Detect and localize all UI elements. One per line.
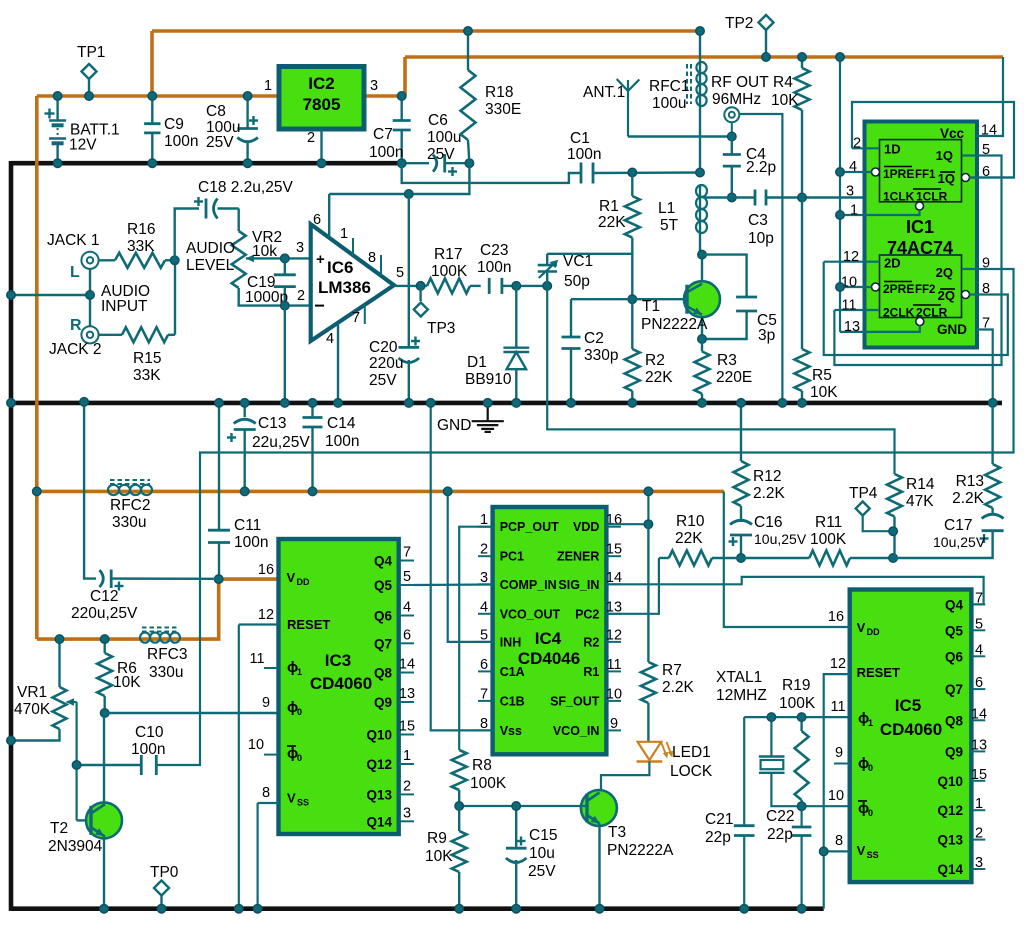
svg-text:9: 9 [835,745,843,761]
label C2 330p [584,330,618,364]
svg-text:15: 15 [606,542,622,558]
svg-text:RFC2: RFC2 [110,497,150,514]
label IC2 pin 2 [307,130,315,146]
label T2 2N3904 [48,820,103,855]
node battery negative [53,159,62,168]
transistor T1 PN2222A [684,255,720,339]
svg-text:Q5: Q5 [374,578,393,593]
node R3 ground [698,399,707,408]
label R7 2.2K [662,662,695,696]
svg-text:GND: GND [437,417,471,434]
svg-text:2: 2 [403,778,411,794]
label IC5 RESET [857,665,900,680]
node R16 R15 join [170,256,179,265]
svg-text:C7: C7 [373,126,393,143]
label VR2 10k [252,229,282,260]
svg-text:RFC3: RFC3 [147,646,187,663]
pins IC5 outputs Q4-Q14 [937,590,987,877]
resistor R12 [734,403,749,522]
diode D1 BB910 (varactor) [503,286,529,403]
label C7 100n [369,126,403,161]
wire IC6 output [394,285,427,287]
wire L1 top to C4 bottom [705,196,732,198]
wire C23 to VC1 node [516,285,547,287]
label IC5 Vss [857,843,879,860]
label C14 100n [325,415,359,450]
resistor R9 [452,806,467,909]
svg-text:C14: C14 [327,415,356,432]
wire IC1 pin12 (2D) [824,261,880,263]
resistor R17 [427,278,481,293]
label IC1 pin 2 [853,136,861,152]
svg-text:RFC1: RFC1 [649,78,689,95]
node RFC1 top on +12V [696,27,705,36]
label C18 2.2u,25V [198,179,293,196]
svg-text:8: 8 [262,785,270,801]
svg-text:330p: 330p [584,347,618,364]
node C19 ground [281,399,290,408]
svg-text:3: 3 [846,184,854,200]
node IC1 pin7 ground [988,399,997,408]
label IC6 pin 5 [396,265,404,281]
node R6 bottom / phi0 row [100,709,109,718]
label C17 10u,25V [933,517,986,550]
svg-text:5T: 5T [660,217,679,234]
wire IC4 PC2 to R10 [606,558,659,614]
ground symbol GND [472,403,504,432]
flip-flop FF1 block [872,140,970,210]
label JACK 2 [49,341,102,358]
wire IC4 VDD to +12V rail [606,491,648,524]
svg-text:2Q: 2Q [936,265,953,280]
label IC2 pin 1 [264,78,272,94]
wire IC1 pin2-1Q loop [852,102,1014,178]
node C19 bottom [281,301,290,310]
node IC6 pin4 ground [334,399,343,408]
svg-text:IC2: IC2 [308,74,334,93]
label IC3 RESET [287,617,330,632]
wire IC3 Q5 to IC4 COMP_IN [414,583,494,586]
label C22 22p [766,808,794,843]
svg-text:PCP_OUT: PCP_OUT [500,520,559,534]
label XTAL1 12MHZ [716,669,767,704]
node C13 top [240,399,249,408]
wire T2 base [77,819,90,821]
wire to C18 [175,209,199,261]
label C21 22p [705,811,733,846]
test point TP1 [82,64,97,96]
svg-text:C1B: C1B [500,694,525,708]
label C5 3p [757,312,777,344]
label R3 220E [716,352,752,386]
node C8 top [243,92,252,101]
wire ground left border (black) [9,161,14,911]
svg-text:R4: R4 [773,74,793,91]
svg-text:47K: 47K [906,493,934,510]
svg-text:VDD: VDD [573,520,599,534]
node TP1 on rail [85,92,94,101]
svg-text:10K: 10K [425,848,453,865]
capacitor C14 [303,403,323,492]
svg-text:COMP_IN: COMP_IN [500,578,557,592]
svg-text:C1: C1 [570,130,590,147]
transistor T3 PN2222A [581,790,617,826]
wire C3 to 1CLK [766,196,880,198]
resistor R14 [887,474,902,558]
svg-text:Q6: Q6 [374,609,393,624]
capacitor C11 [208,403,230,579]
svg-text:LEVEL: LEVEL [186,257,235,274]
node C2 ground [567,399,576,408]
node RF shield ground [778,399,787,408]
node C14 bottom on rail [308,487,317,496]
capacitor C6 (electrolytic) [402,154,470,176]
capacitor C16 (electrolytic) [729,520,753,558]
svg-text:2N3904: 2N3904 [48,838,103,855]
label R13 2.2K [952,473,985,507]
label R17 100K [431,246,468,280]
node C9 bottom [148,159,157,168]
node middle bus on left border [7,399,16,408]
svg-text:L1: L1 [658,200,675,217]
svg-text:AUDIO: AUDIO [186,240,235,257]
label BATT.1 12V [69,122,120,154]
label L [70,264,80,281]
wire varicap control line [547,286,894,474]
svg-text:CD4060: CD4060 [310,674,372,693]
capacitor C15 (electrolytic) [506,806,527,909]
svg-text:C2: C2 [584,330,604,347]
svg-text:RESET: RESET [287,617,330,632]
wire IC1 pin7 (GND) [977,330,993,403]
node R6 top [100,635,109,644]
wire ground bus bottom (GND, black) [11,906,824,911]
capacitor C23 [489,278,516,294]
label C1 100n [567,130,601,163]
svg-text:100n: 100n [477,259,511,276]
resistor R4 [795,57,810,198]
wire oscillator row [744,716,849,718]
node C15 ground [512,904,521,913]
svg-text:Q4: Q4 [374,554,393,569]
label IC5 phi0 [858,755,873,773]
svg-text:GND: GND [937,322,967,337]
svg-text:C20: C20 [369,339,398,356]
wire T1 base row [571,298,687,300]
node audio input junction [86,291,95,300]
svg-text:16: 16 [258,562,274,578]
node VR1 bottom on border [7,736,16,745]
svg-text:TP0: TP0 [150,864,179,881]
node C22 ground [797,904,806,913]
op-amp IC6 LM386 [311,224,394,341]
capacitor C21 [734,717,755,909]
svg-text:7805: 7805 [303,95,341,114]
node R12 top ground [737,399,746,408]
svg-text:2CLK: 2CLK [883,306,915,320]
label C9 100n [164,116,198,150]
svg-text:R1: R1 [599,198,619,215]
node T3 emitter ground [595,904,604,913]
svg-text:100K: 100K [810,531,847,548]
pin IC5 pin9 stub [834,745,850,764]
node TP4 on R14 leg [889,527,898,536]
wire pin3 to op-amp [285,257,311,259]
svg-text:100K: 100K [431,263,468,280]
label C4 2.2p [746,146,776,176]
svg-text:6: 6 [480,657,488,673]
label IC1 pin 12 [843,249,859,265]
svg-text:25V: 25V [528,863,556,880]
svg-text:PN2222A: PN2222A [641,316,708,333]
wire 7805 output to node (orange) [364,94,405,98]
svg-text:1: 1 [850,203,858,219]
svg-text:6: 6 [313,212,321,228]
capacitor C18 (electrolytic) [194,197,239,219]
label R4 10K [771,74,799,109]
label IC3 phi0bar [287,745,302,763]
svg-text:2.2K: 2.2K [952,490,985,507]
label C12 220u,25V [71,588,138,622]
pins IC4 left [478,512,560,738]
svg-text:330u: 330u [112,514,146,531]
label R14 47K [906,476,935,510]
svg-text:LOCK: LOCK [670,763,713,780]
resistor R19 [795,717,809,806]
label TP0 [150,864,179,881]
transistor T2 2N3904 [86,802,122,838]
svg-text:12: 12 [606,627,622,643]
label IC3 Vss [287,791,309,808]
svg-text:Q14: Q14 [937,862,963,877]
wire pin2 to op-amp [285,304,311,306]
svg-text:D1: D1 [467,354,487,371]
resistor R16 [99,253,175,268]
node R1 top [628,168,637,177]
node XTAL top [767,713,776,722]
node pin1 junction [836,211,845,220]
svg-text:Q10: Q10 [366,728,392,743]
svg-text:22u,25V: 22u,25V [252,434,310,451]
label R1 22K [598,198,626,231]
node C11 top [215,399,224,408]
resistor R3 [695,339,710,403]
wire IC1 pin4 (1PRE) [840,171,872,173]
svg-text:C10: C10 [135,724,164,741]
node C9 top [148,92,157,101]
wire T3 emitter to ground [598,824,600,909]
svg-text:JACK 1: JACK 1 [47,232,100,249]
label R11 100K [810,514,847,548]
node C13 bottom on rail [240,487,249,496]
svg-text:6: 6 [982,164,990,180]
wire IC6 pin 4 to ground [337,323,339,403]
svg-text:C22: C22 [766,808,794,825]
label IC1 pin 4 [849,159,857,175]
potentiometer VR1 [11,639,77,820]
svg-text:10K: 10K [771,92,799,109]
svg-text:10K: 10K [113,674,141,691]
resistor R11 [741,551,893,566]
svg-text:CD4060: CD4060 [880,720,942,739]
label IC3 pin9 [262,695,270,711]
svg-text:R5: R5 [812,367,832,384]
svg-text:330u: 330u [149,664,183,681]
svg-text:1Q: 1Q [938,171,955,186]
wire ground bus top (GND, black) [11,161,402,166]
svg-text:SIG_IN: SIG_IN [558,578,599,592]
svg-text:220u: 220u [369,355,403,372]
svg-text:9: 9 [982,256,990,272]
svg-text:RF OUT: RF OUT [711,74,769,91]
node Vcc column on +5V [836,53,845,62]
label R10 22K [675,513,705,547]
svg-text:100u: 100u [652,95,686,112]
node C15 top [512,802,521,811]
wire +5V riser (orange) [403,57,407,96]
node T2 emitter ground [100,904,109,913]
svg-text:VCO_OUT: VCO_OUT [500,607,561,621]
svg-text:10: 10 [606,686,622,702]
regulator IC2 7805 [279,67,364,130]
svg-text:15: 15 [399,719,415,735]
flip-flop IC1 74AC74 [865,122,978,348]
svg-text:ANT.1: ANT.1 [583,84,625,101]
node C16 bottom on filter row [737,554,746,563]
svg-text:13: 13 [971,737,987,753]
label IC3 VDD [287,570,310,587]
svg-text:R14: R14 [906,476,935,493]
svg-text:1: 1 [264,78,272,94]
node R2 ground [628,399,637,408]
svg-text:12V: 12V [69,137,97,154]
svg-text:C18 2.2u,25V: C18 2.2u,25V [198,179,293,196]
resistor R13 [985,403,1000,515]
node battery positive [53,92,62,101]
label C16 10u,25V [754,514,807,547]
counter IC5 CD4060 [850,590,972,883]
svg-text:R7: R7 [662,662,682,679]
node IC5 Vss / RESET join [819,847,828,856]
svg-text:FF1: FF1 [915,169,936,181]
node R11 / R14 junction [889,554,898,563]
svg-text:JACK 2: JACK 2 [49,341,102,358]
pin IC6 pin 1 tick [352,238,354,256]
wire IC4 Vss to ground bus [431,403,493,731]
svg-text:220u,25V: 220u,25V [71,605,138,622]
label GND [437,417,471,434]
wire IC3 RESET to ground [238,625,240,909]
svg-text:Q7: Q7 [945,682,963,697]
capacitor C17 (electrolytic) [893,514,1004,558]
capacitor C22 [792,806,812,909]
label IC5 VDD [857,620,880,637]
label VC1 50p [563,253,593,290]
svg-text:Q13: Q13 [937,833,963,848]
svg-text:5: 5 [403,569,411,585]
resistor R1 [625,173,640,300]
wire RF out shield [739,114,782,403]
svg-text:R18: R18 [485,84,513,101]
svg-text:R10: R10 [676,513,705,530]
svg-text:11: 11 [606,657,621,673]
svg-text:10: 10 [828,788,844,804]
node D1 ground [512,399,521,408]
svg-text:DD: DD [867,627,880,637]
test point TP3 [414,286,428,317]
label IC1 pin 11 [841,298,856,314]
node RFC1 bottom / C1 row [696,168,705,177]
capacitor C20 (electrolytic) [399,194,421,403]
wire IC3 pin8 Vss [258,785,279,803]
svg-text:1D: 1D [884,142,901,157]
svg-text:50p: 50p [564,273,590,290]
capacitor C19 [274,258,296,305]
svg-text:+: + [316,251,325,268]
wire IC1 pin5 (1Q) to 2CLK [834,156,1001,366]
svg-text:SS: SS [867,850,879,860]
svg-text:R13: R13 [956,473,984,490]
wire phi0 row to IC3 [105,712,279,714]
svg-text:C8: C8 [206,103,226,120]
svg-text:1Q: 1Q [936,148,953,163]
svg-text:100n: 100n [325,433,359,450]
node C7 top [397,92,406,101]
svg-text:10p: 10p [748,230,774,247]
svg-text:12: 12 [843,249,859,265]
node C19 top [281,254,290,263]
svg-text:15: 15 [971,767,987,783]
label R12 2.2K [753,468,786,502]
svg-text:11: 11 [830,699,845,715]
node IC3 Vss ground [253,904,262,913]
svg-text:C3: C3 [748,212,768,229]
label C19 1000p [245,274,288,306]
svg-text:16: 16 [828,609,844,625]
svg-text:22K: 22K [598,214,626,231]
wire +12V riser at C9 (orange) [150,31,154,96]
svg-text:C23: C23 [480,242,508,259]
node RF out / C4 top [728,132,737,141]
svg-text:9: 9 [262,695,270,711]
capacitor C8 (electrolytic) [237,96,258,163]
flip-flop FF2 block [872,255,970,326]
node pin4 junction [836,168,845,177]
svg-text:DD: DD [297,577,310,587]
label IC5 pin11 phi1 [830,699,845,715]
wire jack1 to jack2 [89,269,91,326]
label R [70,317,82,334]
svg-text:L: L [70,264,80,281]
svg-text:C21: C21 [705,811,733,828]
pin IC6 pin 7 tick [364,305,366,324]
node C6 left (gnd end) [397,159,406,168]
node +12V/RFC2 corner [33,487,42,496]
svg-text:SF_OUT: SF_OUT [550,694,600,708]
test point TP0 [154,881,169,909]
svg-text:6: 6 [975,675,983,691]
svg-text:4: 4 [403,600,411,616]
label RFC3 330u [147,646,187,681]
svg-text:100K: 100K [779,695,816,712]
svg-text:2.2K: 2.2K [753,485,786,502]
svg-text:C15: C15 [529,827,557,844]
svg-text:INPUT: INPUT [101,298,148,315]
wire IC4 SIG_IN from IC5 Q4 [606,577,983,605]
resistor R8 [452,750,467,806]
pin IC6 pin 8 tick [380,255,382,276]
svg-text:TP3: TP3 [427,320,455,337]
